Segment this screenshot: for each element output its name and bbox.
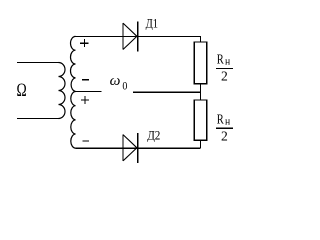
- svg-text:ω: ω: [110, 73, 121, 89]
- diode D2 cathode bar: [137, 133, 139, 163]
- wire center rail right segment: [133, 91, 201, 93]
- inductor L1 primary winding: [59, 63, 66, 119]
- svg-text:0: 0: [122, 79, 127, 93]
- svg-text:R: R: [217, 111, 224, 126]
- svg-text:Д2: Д2: [147, 128, 160, 142]
- plus sign secondary lower center: [81, 96, 89, 104]
- diode D2 triangle: [122, 135, 124, 161]
- minus sign secondary bottom terminal: [82, 140, 89, 142]
- label R2 fraction bar: [216, 127, 233, 129]
- wire bottom rail: [76, 147, 201, 149]
- wire R2 bottom stub: [200, 140, 202, 148]
- svg-text:н: н: [225, 57, 231, 68]
- resistor R2 (Rн/2 bottom): [194, 100, 206, 140]
- svg-text:2: 2: [221, 128, 228, 143]
- label R1 fraction bar: [216, 67, 233, 69]
- diode D1 cathode bar: [137, 22, 139, 52]
- wire R1 bottom stub: [200, 84, 202, 92]
- diode D1 triangle: [122, 23, 124, 49]
- plus sign secondary top terminal: [80, 39, 88, 47]
- svg-text:Ω: Ω: [17, 80, 27, 101]
- inductor L2 secondary upper winding: [71, 36, 76, 91]
- svg-text:2: 2: [221, 68, 228, 83]
- wire top rail: [76, 36, 201, 42]
- primary top wire: [17, 62, 59, 64]
- minus sign secondary upper center: [82, 79, 89, 81]
- svg-text:Д1: Д1: [146, 17, 158, 31]
- inductor L3 secondary lower winding: [71, 92, 76, 149]
- resistor R1 (Rн/2 top): [194, 42, 206, 84]
- node center tap junction: [200, 92, 202, 101]
- svg-text:R: R: [217, 51, 224, 66]
- wire center rail left segment: [76, 91, 102, 93]
- svg-text:н: н: [225, 117, 231, 128]
- primary bottom wire: [17, 118, 59, 120]
